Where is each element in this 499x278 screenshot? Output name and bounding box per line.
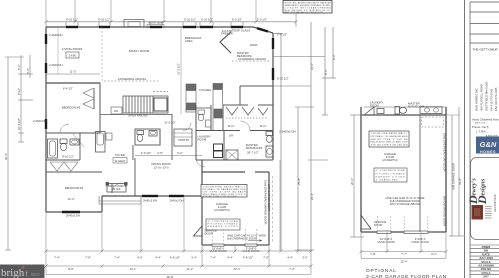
wall below master bedroom	[240, 86, 273, 105]
dining dim line	[135, 155, 202, 157]
dining room label	[151, 162, 171, 170]
svg-text:OPTIONAL: OPTIONAL	[366, 268, 397, 274]
svg-text:L.T.Wh...: L.T.Wh...	[476, 130, 488, 134]
garage door openings	[212, 244, 257, 246]
laundry label (opt)	[370, 101, 383, 108]
title block top rows	[470, 2, 499, 43]
svg-text:2-3400x2 DH: 2-3400x2 DH	[279, 130, 295, 134]
svg-text:4" GRAVEL BED: 4" GRAVEL BED	[376, 178, 398, 181]
svg-text:W.I.C: W.I.C	[260, 124, 267, 128]
garage (main plan)	[202, 160, 269, 245]
tub closet room	[96, 132, 113, 153]
svg-text:7'-8": 7'-8"	[370, 252, 376, 256]
svg-text:FAMILY ROOM: FAMILY ROOM	[129, 49, 150, 53]
svg-text:1 HOUR FIRE-RATED WALL 1: 1 HOUR FIRE-RATED WALL 1	[371, 132, 409, 135]
svg-text:11'-2": 11'-2"	[187, 267, 194, 271]
bottom extension lines	[46, 160, 311, 275]
svg-text:DOOR: DOOR	[205, 231, 213, 235]
svg-text:2'-8": 2'-8"	[157, 151, 163, 155]
svg-text:14/90: 14/90	[69, 54, 76, 58]
right dims (opt)	[449, 107, 464, 236]
svg-text:EACH SIDE WALLS AND USE: EACH SIDE WALLS AND USE	[371, 141, 409, 144]
svg-text:4'-0 1/2": 4'-0 1/2"	[141, 151, 151, 155]
svg-text:5'-0 1/2": 5'-0 1/2"	[257, 18, 267, 22]
svg-text:4'-4": 4'-4"	[155, 256, 161, 260]
breakfast area label	[185, 36, 202, 43]
svg-text:3'-4": 3'-4"	[191, 256, 197, 260]
living room label	[62, 47, 83, 58]
rotated door labels (opt)	[443, 133, 447, 226]
svg-text:ROOM: ROOM	[198, 137, 207, 141]
bedroom3 east wall	[99, 83, 101, 133]
foyer label	[113, 153, 127, 163]
svg-text:20'-0": 20'-0"	[350, 178, 354, 185]
powder room	[196, 108, 211, 127]
svg-text:FAX 413-572-1045: FAX 413-572-1045	[494, 87, 498, 111]
window labels left	[49, 33, 63, 67]
svg-text:(20 DEPTH): (20 DEPTH)	[382, 158, 397, 162]
fixtures strip (opt)	[364, 107, 446, 116]
svg-text:22'-4": 22'-4"	[310, 193, 314, 200]
svg-text:5'-10 1/2": 5'-10 1/2"	[201, 18, 213, 22]
storage dashed (opt)	[422, 117, 444, 127]
living room dim line	[46, 73, 100, 75]
svg-text:GYP. BD TYPE X ON CEILING: GYP. BD TYPE X ON CEILING	[371, 144, 408, 146]
fire rated note box (main)	[201, 185, 247, 198]
master bedroom label	[237, 43, 258, 58]
svg-text:16x8 OVERHEAD GAR DOOR: 16x8 OVERHEAD GAR DOOR	[443, 133, 447, 172]
door jamb dashes (opt garage)	[378, 216, 428, 232]
svg-text:KITCHEN: KITCHEN	[199, 88, 211, 92]
garage walls (opt)	[361, 107, 446, 232]
master bath door arc	[241, 121, 251, 131]
svg-text:7'-0": 7'-0"	[263, 256, 269, 260]
svg-text:WDW: WDW	[250, 43, 258, 47]
windows on left wall	[45, 34, 47, 129]
svg-text:25'-8": 25'-8"	[297, 178, 301, 185]
svg-text:BATHROOM: BATHROOM	[408, 104, 425, 108]
svg-text:WESTFIELD MA 01085: WESTFIELD MA 01085	[485, 81, 489, 111]
dimension tick slashes	[44, 20, 447, 267]
cathedral ceiling dashed (master)	[232, 57, 270, 61]
fire rated note box (opt)	[369, 131, 409, 147]
left dimension lines	[5, 55, 33, 250]
service door main garage	[194, 226, 203, 236]
svg-text:LIN: LIN	[114, 109, 118, 113]
top extension lines	[46, 0, 296, 27]
svg-text:PANTRY: PANTRY	[178, 138, 189, 142]
bedroom2 closet bifold	[46, 162, 102, 172]
svg-text:5'-0": 5'-0"	[17, 64, 21, 70]
one car note (main)	[227, 234, 266, 242]
porch steps	[99, 196, 141, 204]
svg-text:4" CONCRETE SLAB: 4" CONCRETE SLAB	[376, 169, 406, 172]
svg-text:5'-0 1/2": 5'-0 1/2"	[232, 18, 242, 22]
svg-text:FOYER: FOYER	[115, 153, 125, 157]
svg-text:4'-4": 4'-4"	[287, 256, 293, 260]
svg-text:11'-0 1/2": 11'-0 1/2"	[164, 121, 176, 125]
svg-text:GARAGE DOORS: GARAGE DOORS	[376, 176, 406, 179]
svg-text:5'-0 1/2": 5'-0 1/2"	[277, 33, 287, 37]
right wall	[272, 33, 274, 160]
svg-text:4" CONCRETE SLAB: 4" CONCRETE SLAB	[208, 220, 239, 223]
svg-text:BATHROOM: BATHROOM	[246, 146, 263, 150]
svg-text:8'-4 1/2": 8'-4 1/2"	[63, 87, 73, 91]
svg-text:3'-0": 3'-0"	[302, 256, 308, 260]
svg-text:12'-0 x 13'-0: 12'-0 x 13'-0	[153, 166, 169, 170]
svg-text:W/O STORAGE ABOVE: W/O STORAGE ABOVE	[390, 202, 420, 206]
svg-text:7'-4": 7'-4"	[114, 256, 120, 260]
stairs	[123, 92, 168, 114]
laundry room	[198, 135, 223, 158]
svg-text:OVHD DOOR: OVHD DOOR	[411, 240, 428, 244]
living/family divider dashed	[101, 27, 103, 83]
linen box	[111, 107, 122, 114]
dining left wall	[134, 158, 136, 196]
master bathroom label (opt)	[408, 102, 425, 109]
svg-text:21'-2 1/2": 21'-2 1/2"	[177, 63, 181, 75]
hall line below stairs	[100, 114, 172, 116]
svg-text:9'-2": 9'-2"	[177, 151, 183, 155]
svg-text:22'-4": 22'-4"	[400, 260, 407, 264]
master closet bifolds	[226, 107, 268, 118]
svg-text:3-CAR GARAGE FLOOR PLAN: 3-CAR GARAGE FLOOR PLAN	[366, 274, 447, 278]
svg-text:DOOR: DOOR	[374, 223, 382, 227]
garage door rotated label	[264, 180, 272, 224]
svg-text:16x8 OVERHEAD GARAGE DOOR: 16x8 OVERHEAD GARAGE DOOR	[264, 180, 268, 224]
svg-text:PITCHED TOWARD: PITCHED TOWARD	[208, 223, 238, 226]
title block inner border	[469, 2, 471, 278]
svg-text:G&N: G&N	[480, 140, 497, 149]
stamp logo	[472, 205, 492, 220]
living room inner extent line	[57, 28, 59, 74]
svg-text:W/B GARAGE DOOR: W/B GARAGE DOOR	[452, 163, 456, 190]
svg-text:(20 DEPTH): (20 DEPTH)	[214, 208, 229, 212]
master closet top wall	[223, 105, 273, 131]
svg-text:5'-10 1/2": 5'-10 1/2"	[184, 18, 196, 22]
concrete slab note (main)	[206, 219, 240, 230]
window seat label	[147, 21, 164, 28]
garage label (opt)	[382, 152, 397, 162]
right dim labels (rotated)	[297, 54, 336, 200]
svg-text:2-2640 DH: 2-2640 DH	[49, 33, 63, 37]
bath2 walls	[46, 133, 80, 160]
svg-text:BEDROOM #2: BEDROOM #2	[65, 186, 84, 190]
svg-text:6'-2": 6'-2"	[431, 252, 437, 256]
kitchen counters	[186, 83, 223, 130]
svg-text:PITCHED TOWARD: PITCHED TOWARD	[376, 172, 405, 175]
svg-text:12'-4": 12'-4"	[67, 197, 74, 201]
bottom dim row2 (opt)	[361, 258, 446, 260]
builder info rotated text	[475, 81, 499, 111]
svg-text:2640x2 DH: 2640x2 DH	[66, 214, 80, 218]
bottom dimension row 1	[46, 250, 311, 252]
bright MLS watermark	[0, 265, 45, 278]
top dimension line	[46, 22, 296, 27]
svg-text:4'-4": 4'-4"	[227, 256, 233, 260]
svg-text:8'-10": 8'-10"	[17, 88, 21, 95]
rounded logo panel	[471, 158, 499, 240]
one car note (opt)	[386, 196, 425, 206]
bottom ext lines (opt)	[361, 232, 446, 259]
kitchen/breakfast divider	[180, 27, 182, 114]
master bathroom	[246, 143, 263, 155]
garage door openings (opt)	[377, 231, 428, 233]
svg-text:DRYWALL IN GARAGE AND: DRYWALL IN GARAGE AND	[371, 135, 408, 138]
garage label (main)	[214, 202, 229, 212]
svg-text:D: D	[475, 195, 489, 205]
bottom dimension row 2	[46, 265, 311, 267]
left dims (opt)	[350, 115, 364, 237]
svg-text:4'-8 1/2": 4'-8 1/2"	[170, 256, 180, 260]
left wall	[45, 27, 47, 212]
optional plan title	[366, 268, 447, 278]
top dimension labels	[66, 18, 267, 22]
svg-text:4'-8 1/2": 4'-8 1/2"	[243, 256, 253, 260]
svg-text:2640x2 DH: 2640x2 DH	[170, 198, 184, 202]
garage door labels (opt)	[377, 237, 428, 244]
svg-text:OVHD DOOR: OVHD DOOR	[377, 240, 394, 244]
svg-text:9'-0": 9'-0"	[332, 54, 336, 60]
svg-text:OPEN RAILING: OPEN RAILING	[128, 114, 148, 118]
bedroom3 closet bifold	[83, 88, 94, 109]
svg-text:WDW SEAT: WDW SEAT	[148, 21, 163, 25]
center hall walls	[133, 114, 172, 160]
svg-text:2-2640 DH: 2-2640 DH	[49, 63, 63, 67]
G&N HOMES logo	[476, 137, 499, 154]
svg-text:TEMP. GLASS: TEMP. GLASS	[232, 29, 250, 33]
svg-text:W.I.C: W.I.C	[228, 124, 235, 128]
pantry	[174, 129, 192, 146]
door jamb dashes (main garage)	[213, 228, 257, 245]
svg-text:413-569-5310: 413-569-5310	[493, 194, 497, 212]
bedroom2 front wall	[46, 196, 102, 212]
front porch	[106, 183, 127, 193]
Dewey's Designs logo (rotated)	[466, 178, 489, 205]
svg-text:SHT: SHT	[483, 275, 489, 278]
svg-text:2640x2 DH: 2640x2 DH	[143, 198, 157, 202]
front door swing	[112, 183, 122, 193]
svg-text:W/B GARAGE DOOR: W/B GARAGE DOOR	[267, 184, 271, 211]
interior bay divider (opt)	[419, 115, 421, 232]
garage door dashed line	[272, 176, 274, 243]
svg-text:esigns: esigns	[480, 178, 487, 195]
sheet border line	[464, 0, 466, 278]
right wall window labels	[277, 33, 295, 134]
bottom table	[470, 245, 499, 275]
svg-text:5'-4": 5'-4"	[26, 68, 30, 74]
service door (opt)	[361, 215, 371, 229]
svg-text:HOMES: HOMES	[480, 150, 496, 154]
svg-text:7'-4": 7'-4"	[289, 267, 295, 271]
svg-text:5'-10 1/2": 5'-10 1/2"	[277, 77, 289, 81]
walls near laundry/master bath	[196, 105, 273, 160]
windows on top wall	[66, 27, 268, 32]
svg-text:GYP. BD TYPE X ON CEILING: GYP. BD TYPE X ON CEILING	[203, 196, 237, 198]
contact text lines	[472, 118, 499, 138]
svg-text:22'-4": 22'-4"	[233, 267, 240, 271]
left dim labels (rotated)	[4, 64, 47, 160]
ext line right of strip	[446, 114, 460, 116]
svg-text:10'-2 1/2": 10'-2 1/2"	[17, 118, 21, 130]
svg-text:8'-0": 8'-0"	[324, 69, 328, 75]
wall below living room	[46, 82, 100, 84]
svg-text:4'-0": 4'-0"	[137, 256, 143, 260]
svg-text:14'-1": 14'-1"	[129, 267, 136, 271]
svg-text:LIVING ROOM: LIVING ROOM	[62, 47, 83, 51]
cathedral ceiling dashed (family)	[104, 77, 160, 81]
svg-text:7'-4": 7'-4"	[210, 256, 216, 260]
svg-text:9x8 OVERHEAD DOOR: 9x8 OVERHEAD DOOR	[227, 236, 257, 240]
svg-text:FRENCH: FRENCH	[221, 32, 233, 36]
french door bay (master entry)	[220, 32, 231, 53]
svg-text:31'-0": 31'-0"	[310, 63, 314, 70]
svg-text:brigh: brigh	[1, 267, 25, 278]
bath2 door diagonal	[73, 134, 84, 147]
concrete slab note (opt)	[374, 168, 407, 182]
svg-text:BEDROOM #3: BEDROOM #3	[62, 106, 81, 110]
fireplace box on top wall	[124, 20, 144, 28]
svg-text:8'-10 1/2": 8'-10 1/2"	[62, 155, 74, 159]
bath2 fixtures	[48, 139, 80, 158]
svg-text:7'-7": 7'-7"	[401, 252, 407, 256]
svg-text:USE 5/8" TYPE "X" GYP. BD: USE 5/8" TYPE "X" GYP. BD	[371, 139, 408, 141]
hall bath	[135, 129, 160, 145]
svg-text:8'-8": 8'-8"	[68, 267, 74, 271]
bottom dimension row 3	[46, 274, 311, 276]
walk-in closet label	[228, 124, 267, 138]
svg-text:11'-3": 11'-3"	[70, 70, 77, 74]
svg-text:7'-4": 7'-4"	[54, 256, 60, 260]
note box top right	[283, 1, 332, 14]
svg-text:7'-8": 7'-8"	[85, 256, 91, 260]
svg-text:31'-8": 31'-8"	[458, 178, 462, 185]
svg-text:W HEAT: W HEAT	[115, 159, 126, 163]
bottom dim row1 (opt)	[361, 251, 446, 253]
svg-text:Amity Chartered Home: Amity Chartered Home	[472, 118, 499, 122]
windows on right wall	[272, 38, 274, 80]
svg-text:MAX. SILL HEIGHT 44" OFF FLOOR: MAX. SILL HEIGHT 44" OFF FLOOR	[285, 11, 323, 14]
svg-text:CATHEDRAL CEILING: CATHEDRAL CEILING	[238, 57, 267, 61]
svg-text:G&N HOMES INC.: G&N HOMES INC.	[475, 87, 479, 111]
bedroom3 south wall + door	[46, 124, 100, 133]
top wall	[46, 27, 273, 33]
svg-text:THE GETTYSBUR: THE GETTYSBUR	[473, 48, 499, 52]
svg-text:2-2640 DH: 2-2640 DH	[33, 119, 47, 123]
svg-text:PH 413-572-1043: PH 413-572-1043	[490, 88, 494, 111]
svg-text:MLS: MLS	[31, 272, 40, 277]
right dimension lines	[273, 22, 336, 252]
svg-text:6'-10 1/2": 6'-10 1/2"	[98, 18, 110, 22]
svg-text:28'-7 1/2": 28'-7 1/2"	[247, 151, 259, 155]
svg-text:AREA: AREA	[185, 39, 193, 43]
svg-text:LIN: LIN	[229, 134, 233, 138]
svg-text:9x8 OVERHEAD DOOR: 9x8 OVERHEAD DOOR	[443, 196, 447, 226]
svg-text:30'-4": 30'-4"	[4, 153, 8, 160]
svg-text:Phone: Car 5: Phone: Car 5	[472, 125, 489, 129]
svg-text:CATHEDRAL CEILING: CATHEDRAL CEILING	[118, 77, 147, 81]
garage door labels	[209, 247, 259, 254]
svg-text:ewey's: ewey's	[471, 178, 478, 196]
svg-text:430 RUSSELL ROAD: 430 RUSSELL ROAD	[480, 84, 484, 111]
svg-text:W 4x4: W 4x4	[113, 187, 121, 191]
front wall center	[102, 196, 202, 202]
hall door arcs	[196, 158, 205, 167]
